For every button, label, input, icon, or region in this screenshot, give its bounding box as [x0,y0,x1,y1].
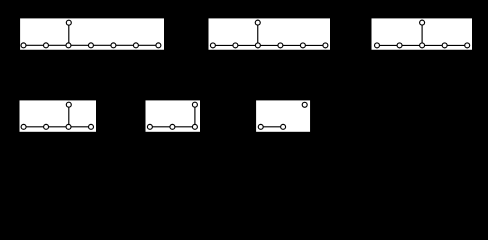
wire E3 A2 edge [261,126,283,128]
node E4-4 top [192,102,198,108]
panel E8 [20,18,164,49]
node E3-3 isolated A1 [302,102,308,108]
node E5-2 [43,124,49,130]
panel E6 [372,18,473,49]
node E7-7 top [255,20,261,26]
node E5-4 [88,124,94,130]
panel E7 [209,18,331,49]
node E4-2 [169,124,175,130]
node E7-6 [322,42,328,48]
node E8-8 top [66,20,72,26]
node E7-3 [255,42,261,48]
node E8-1 [20,42,26,48]
wire E7 branch [257,23,259,46]
wire E6 branch [421,23,423,46]
node E7-4 [277,42,283,48]
wire E4 branch [194,105,196,127]
node E4-3 [192,124,198,130]
node E6-4 [442,42,448,48]
node E7-2 [232,42,238,48]
node E8-5 [110,42,116,48]
node E3-2 [280,124,286,130]
node E3-1 [258,124,264,130]
node E6-1 [374,42,380,48]
node E7-5 [300,42,306,48]
node E8-6 [133,42,139,48]
panel E3 [256,100,310,131]
panel E5 [20,100,97,131]
node E7-1 [210,42,216,48]
node E6-3 [419,42,425,48]
wire E6 chain [377,44,467,46]
node E5-1 [21,124,27,130]
wire E5 branch [68,105,70,127]
node E8-4 [88,42,94,48]
panel E4 [146,100,201,131]
wire E8 chain [24,44,159,46]
node E8-3 [65,42,71,48]
node E5-3 [65,124,71,130]
wire E4 chain [150,126,195,128]
node E5-5 top [66,102,72,108]
wire E7 chain [213,44,326,46]
wire E5 chain [24,126,91,128]
node E6-6 top [419,20,425,26]
node E8-7 [155,42,161,48]
node E6-5 [464,42,470,48]
node E6-2 [397,42,403,48]
node E4-1 [147,124,153,130]
node E8-2 [43,42,49,48]
wire E8 branch [68,23,70,46]
